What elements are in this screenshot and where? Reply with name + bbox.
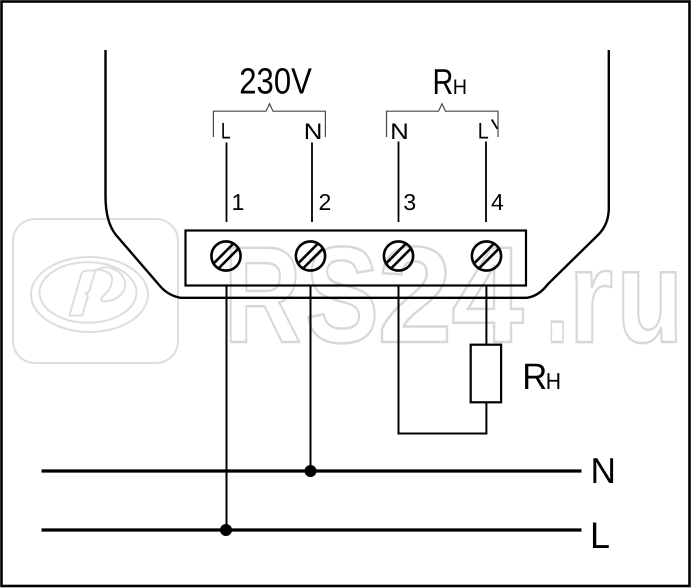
svg-text:3: 3: [403, 189, 416, 215]
svg-text:4: 4: [491, 189, 504, 215]
svg-text:R: R: [522, 356, 547, 397]
svg-text:R: R: [433, 61, 454, 102]
svg-text:.: .: [546, 219, 569, 372]
svg-text:r: r: [569, 223, 613, 370]
svg-text:2: 2: [377, 219, 452, 372]
svg-text:230V: 230V: [239, 61, 312, 102]
svg-text:u: u: [616, 223, 683, 370]
svg-text:L: L: [478, 118, 489, 143]
svg-text:1: 1: [232, 189, 245, 215]
svg-text:2: 2: [319, 189, 332, 215]
svg-text:L: L: [221, 118, 231, 143]
svg-text:H: H: [546, 368, 561, 394]
svg-text:L: L: [590, 515, 610, 556]
svg-text:H: H: [453, 76, 467, 99]
svg-text:N: N: [390, 119, 409, 144]
svg-text:N: N: [591, 450, 616, 491]
svg-text:R: R: [224, 219, 302, 372]
svg-text:N: N: [304, 119, 323, 144]
